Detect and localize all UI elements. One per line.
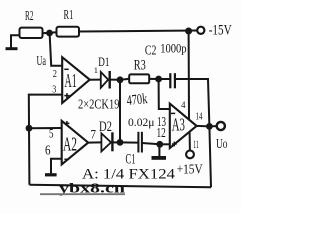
- svg-text:Ua: Ua: [37, 54, 47, 69]
- resistor R1: [57, 8, 80, 37]
- resistor R2: [20, 9, 43, 38]
- wire bus node E to node D: [119, 80, 121, 143]
- wire to Uo terminal: [209, 125, 216, 127]
- svg-text:14: 14: [196, 111, 203, 123]
- node Ua / wire to A1 pin2: [37, 35, 63, 69]
- capacitor C1: [126, 115, 155, 168]
- op-amp A2: [62, 121, 88, 165]
- svg-text:-15V: -15V: [209, 22, 232, 38]
- wire A3 pin11 to +15V: [189, 132, 191, 150]
- wire C1 to node H: [142, 143, 160, 144]
- svg-text:D1: D1: [98, 55, 109, 69]
- node D (D2/C1 junction): [117, 139, 124, 146]
- wire node H to A3 pin12: [160, 143, 170, 145]
- op-amp A3: [170, 104, 197, 148]
- svg-text:R2: R2: [25, 9, 34, 24]
- svg-text:4: 4: [181, 101, 186, 111]
- node A (R2/R1 junction): [46, 30, 53, 37]
- node G (output node): [206, 123, 213, 130]
- ground G2 (under A2): [45, 173, 57, 176]
- wire R2 to R1: [43, 32, 57, 33]
- wire D2 to node D: [112, 141, 121, 143]
- svg-text:0.02μ: 0.02μ: [128, 115, 155, 129]
- svg-text:A: 1/4 FX124: A: 1/4 FX124: [82, 167, 176, 183]
- capacitor C2: [145, 41, 187, 88]
- diode D1: [98, 55, 109, 88]
- terminal -15V: [197, 22, 232, 38]
- node B (-15V rail junction): [185, 28, 192, 35]
- svg-text:D2: D2: [99, 119, 112, 135]
- svg-text:A1: A1: [65, 71, 77, 92]
- terminal +15V: [177, 151, 203, 178]
- svg-text:C1: C1: [126, 152, 136, 168]
- wire -15V bus to A3 pin4: [188, 31, 190, 120]
- svg-text:Uo: Uo: [216, 137, 228, 152]
- svg-text:470k: 470k: [126, 91, 149, 109]
- ground G1 (top left): [6, 35, 20, 49]
- wire A2 pin5: [29, 127, 62, 129]
- wire node F to A3 pin13: [159, 79, 170, 109]
- svg-text:R3: R3: [134, 57, 146, 73]
- svg-text:A2: A2: [63, 134, 77, 156]
- wire R3 to node F: [149, 78, 158, 80]
- ground G3 (A3 pin12): [152, 144, 167, 158]
- wire A3 output pin14: [197, 125, 210, 128]
- wire node E to R3: [120, 79, 129, 80]
- wire top rail to -15V: [79, 31, 197, 32]
- wire C2 to feedback corner: [175, 79, 210, 126]
- terminal Uo: [216, 122, 228, 152]
- watermark ybx8.cn: [40, 181, 125, 196]
- wire D1 to node E: [110, 79, 120, 81]
- wire A1 pin3 / left bus: [29, 95, 62, 185]
- wire A2 pin6 to ground: [51, 159, 62, 174]
- svg-text:12: 12: [157, 125, 166, 140]
- svg-text:C2: C2: [145, 44, 157, 59]
- node H (C1/A3 pin12 junction): [156, 141, 163, 148]
- wire right bus (output to bottom): [209, 126, 211, 187]
- svg-text:7: 7: [91, 127, 97, 142]
- wire node D to C1: [120, 141, 138, 143]
- svg-text:+15V: +15V: [177, 162, 203, 177]
- svg-text:6: 6: [45, 143, 51, 158]
- svg-text:5: 5: [49, 127, 54, 141]
- node C (left bus junction): [26, 125, 33, 132]
- op-amp A1: [62, 57, 89, 103]
- wire A2 output pin7: [88, 141, 101, 143]
- svg-text:A3: A3: [172, 115, 185, 135]
- wire A1 output pin1: [90, 79, 101, 81]
- node E (D1/R3 junction): [117, 76, 124, 83]
- svg-text:1000p: 1000p: [160, 41, 186, 55]
- svg-text:R1: R1: [64, 8, 74, 23]
- svg-text:11: 11: [193, 137, 199, 151]
- resistor R3: [126, 57, 149, 109]
- diode D2: [99, 119, 112, 151]
- svg-text:2×2CK19: 2×2CK19: [78, 97, 120, 112]
- svg-text:2: 2: [53, 69, 57, 80]
- wire bottom bus: [29, 185, 211, 188]
- node F (R3/C2 junction): [155, 76, 162, 83]
